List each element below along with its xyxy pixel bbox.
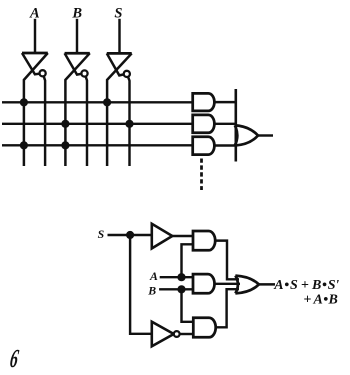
wire OR output (top) [258, 134, 273, 136]
wire A input [160, 276, 193, 278]
and-gate A.S (bottom) [193, 231, 215, 250]
wire column A true [24, 53, 48, 166]
wire and A.B output [215, 283, 241, 285]
wire and B.S' output to or [216, 289, 239, 327]
svg-text:A: A [149, 269, 158, 283]
wire OR input bus [235, 89, 238, 162]
svg-text:B: B [147, 284, 156, 298]
or-gate top [235, 125, 258, 145]
wire row 2 (product B.S') [2, 123, 193, 125]
wire column B true [65, 53, 89, 166]
or-gate bottom [235, 276, 259, 294]
wire B down to and-gate B.S' [182, 289, 194, 322]
wire and A.S output to or [215, 241, 239, 280]
wire A up to and-gate A.S [182, 244, 194, 277]
svg-text:A • S + B • S': A • S + B • S' [273, 278, 339, 293]
wire and2 output [214, 123, 236, 125]
wire row 1 (product A.S) [2, 101, 193, 103]
wire OR output (bottom) [259, 283, 275, 285]
junction row2 x B [61, 120, 69, 128]
inverter/buffer driver S [107, 53, 132, 77]
inverter/buffer driver A [22, 53, 48, 76]
wire row 3 (product A.B) [2, 144, 193, 146]
wire S down to inverter [130, 235, 152, 334]
wire A input [34, 19, 36, 54]
wire inverter output [180, 333, 194, 335]
wire S input [118, 19, 120, 54]
wire column A complement [44, 76, 45, 166]
figure number 6 [8, 344, 21, 373]
wire S to buffer [108, 234, 152, 236]
junction row3 x B [61, 141, 69, 149]
wire and3 output [214, 144, 236, 146]
wire B input [159, 288, 193, 290]
and-gate A.B (bottom middle) [193, 274, 214, 293]
junction row1 x A [20, 98, 28, 106]
junction row2 x S' [125, 120, 133, 128]
svg-text:S: S [98, 227, 105, 241]
wire buffer output [172, 235, 193, 237]
wire column B complement [86, 76, 87, 166]
junction S [126, 231, 134, 239]
junction row1 x S [103, 98, 111, 106]
wire column S true [107, 53, 132, 166]
wire B input [76, 19, 78, 54]
junction B [177, 285, 185, 293]
wire and1 output [214, 101, 236, 103]
inverter (S complement) [152, 322, 180, 347]
and-gate top 2 [193, 115, 215, 133]
svg-text:+ A • B: + A • B [303, 292, 337, 307]
and-gate top 3 [193, 137, 215, 155]
dashed line: more product terms [200, 159, 203, 191]
buffer (S true) [152, 224, 173, 249]
junction row3 x A [20, 141, 28, 149]
svg-text:6: 6 [8, 344, 21, 370]
wire column S complement [128, 77, 130, 166]
inverter/buffer driver B [65, 53, 90, 76]
and-gate B.S' (bottom) [193, 318, 215, 338]
junction A [177, 273, 185, 281]
and-gate top 1 [193, 93, 215, 111]
